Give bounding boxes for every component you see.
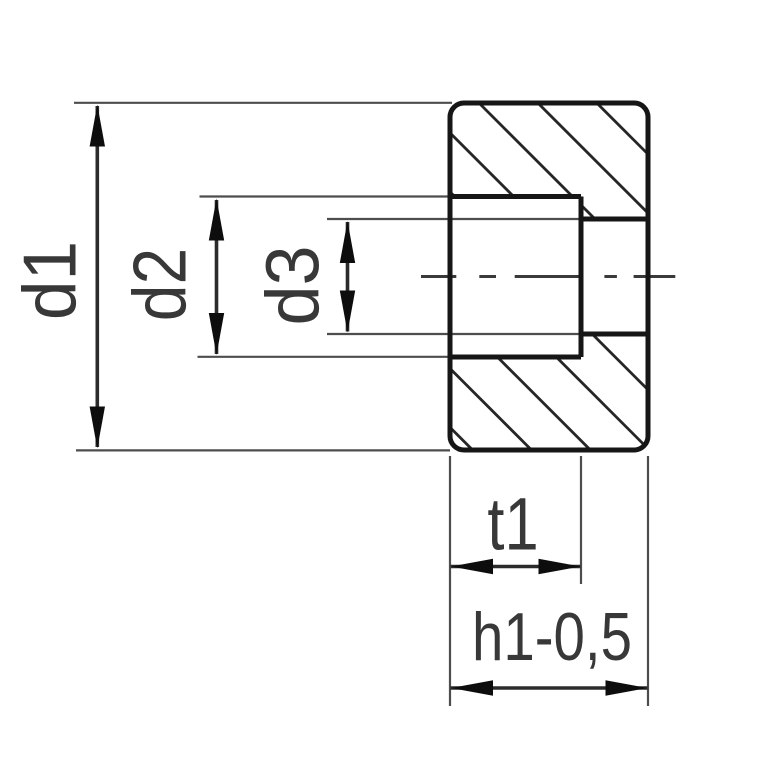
- svg-text:d3: d3: [250, 245, 335, 325]
- svg-text:t1: t1: [487, 483, 538, 566]
- svg-text:d2: d2: [118, 248, 202, 321]
- svg-text:h1-0,5: h1-0,5: [472, 599, 632, 675]
- svg-text:d1: d1: [9, 241, 92, 320]
